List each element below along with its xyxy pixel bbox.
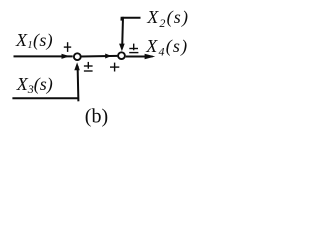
svg-text:(b): (b) (85, 106, 108, 128)
svg-text:X1(s): X1(s) (15, 30, 53, 51)
svg-text:X2(s): X2(s) (146, 7, 189, 30)
svg-text:X4(s): X4(s) (145, 36, 188, 59)
svg-text:X3(s): X3(s) (16, 74, 53, 96)
